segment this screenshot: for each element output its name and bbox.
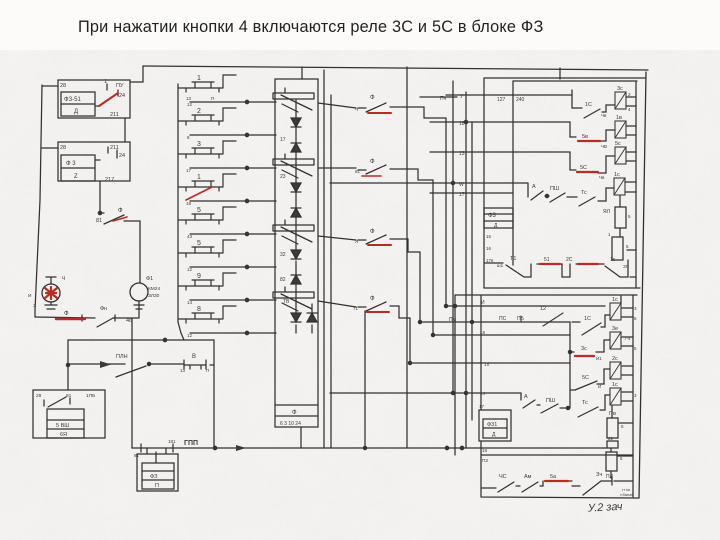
routing vertical F	[465, 92, 467, 448]
red bar 51	[540, 263, 560, 265]
svg-text:1: 1	[104, 79, 107, 85]
diode D4	[291, 208, 301, 217]
wire row7	[190, 299, 276, 301]
svg-text:Ф: Ф	[64, 311, 69, 317]
selector contact row C	[273, 220, 314, 244]
svg-text:22: 22	[608, 436, 614, 441]
switch ПЛН	[116, 366, 146, 377]
wire: top bus drop to tall box	[301, 67, 303, 79]
svg-text:7-4: 7-4	[624, 336, 631, 341]
svg-text:ФЗ-51: ФЗ-51	[64, 97, 82, 103]
wire 18 y335	[433, 334, 570, 336]
svg-text:18: 18	[482, 448, 488, 453]
selector contact row A	[273, 88, 314, 112]
red blade on contact 4	[186, 187, 212, 200]
svg-text:Чв: Чв	[601, 113, 607, 118]
contact inside box2	[95, 147, 117, 160]
red bar switch Ф3m	[368, 244, 391, 246]
svg-text:15: 15	[486, 234, 492, 239]
contact 7	[178, 273, 236, 290]
svg-text:5а: 5а	[550, 474, 557, 480]
wire: box2 bottom lead	[99, 181, 101, 213]
svg-text:ЯЛ: ЯЛ	[603, 209, 610, 215]
svg-text:2с: 2с	[612, 356, 618, 362]
wire: bottom long bus y448	[173, 447, 604, 449]
contact 8	[178, 306, 236, 323]
contact 4	[178, 174, 236, 191]
svg-text:17: 17	[459, 192, 465, 198]
wire: top bus line	[143, 66, 648, 70]
red bar 5С upper	[577, 171, 598, 173]
svg-text:Фн: Фн	[100, 306, 107, 312]
wire ПС/ПБ y322	[420, 321, 560, 323]
svg-text:81: 81	[134, 453, 140, 458]
svg-text:ПУ: ПУ	[116, 83, 124, 89]
svg-text:16: 16	[486, 246, 492, 251]
svg-text:ЗГ: ЗГ	[623, 264, 629, 269]
outer right border	[639, 72, 646, 498]
diode D6	[291, 275, 301, 284]
svg-text:17: 17	[479, 404, 485, 409]
contact 5	[178, 207, 236, 224]
contact В	[184, 360, 206, 369]
svg-text:Пв: Пв	[609, 411, 616, 417]
wire row3	[190, 167, 276, 169]
vertical x570	[569, 322, 571, 408]
svg-text:Z: Z	[74, 174, 78, 180]
wire: left bus vertical	[35, 85, 42, 317]
svg-text:28: 28	[60, 145, 66, 151]
contact inside box1	[95, 84, 118, 106]
wire: down lead to 5ВШ box	[67, 340, 69, 390]
svg-text:28: 28	[36, 393, 42, 399]
wire ПУ stub	[420, 96, 457, 98]
diode D7	[291, 313, 301, 322]
svg-text:Ам: Ам	[524, 474, 532, 480]
svg-text:И1: И1	[596, 356, 602, 361]
svg-text:12: 12	[187, 102, 193, 107]
switch 3с with red mark	[570, 340, 610, 352]
selector contact row D	[273, 287, 314, 311]
switch Фн	[97, 315, 115, 327]
relay coil 1в	[615, 121, 626, 138]
contact 6	[178, 240, 236, 257]
svg-text:1Х: 1Х	[484, 362, 490, 367]
svg-text:211: 211	[110, 145, 119, 151]
svg-text:3: 3	[197, 141, 201, 148]
wire 1Х y363	[410, 362, 570, 364]
wire 14 y393	[330, 392, 521, 394]
switch 5а red row	[543, 481, 572, 486]
svg-text:3с: 3с	[581, 346, 587, 352]
relay coil 3е	[610, 332, 621, 349]
switch 5С lower	[575, 369, 610, 390]
svg-text:Пч: Пч	[440, 96, 447, 102]
svg-text:1с: 1с	[612, 297, 618, 303]
wire: ПЛН horizontal bus y365	[68, 364, 214, 365]
svg-text:13: 13	[180, 368, 186, 373]
arrows on bus y365	[100, 361, 111, 368]
switch Ф3m	[318, 235, 420, 252]
svg-text:И: И	[598, 384, 601, 389]
svg-text:Ф: Ф	[118, 208, 123, 214]
relay coil 3с	[615, 92, 626, 109]
red bar switch Ф1	[368, 112, 391, 114]
resistor ЯЛ	[615, 207, 626, 228]
svg-text:18: 18	[459, 121, 465, 127]
svg-text:17: 17	[186, 168, 192, 173]
wire row6	[190, 266, 276, 268]
title	[78, 18, 543, 37]
svg-text:ГПП: ГПП	[184, 440, 198, 447]
svg-text:5в: 5в	[582, 134, 588, 140]
svg-text:W: W	[459, 182, 464, 188]
wire: box2 left lead	[42, 147, 58, 149]
wire: upper return bus y340	[68, 339, 214, 341]
switch Ф4	[318, 301, 410, 318]
svg-text:17в: 17в	[486, 258, 494, 263]
svg-text:Ф: Ф	[370, 95, 375, 101]
relay coil 5с	[615, 147, 626, 164]
svg-text:А: А	[532, 184, 536, 190]
switch ЧС	[481, 482, 520, 492]
svg-text:32: 32	[280, 252, 286, 258]
bottom contact row of upper block	[484, 260, 636, 277]
wire: top bus drop to box1	[130, 66, 143, 82]
wire row2	[190, 134, 276, 136]
routing vertical A	[445, 118, 447, 306]
svg-text:6 3 10 24: 6 3 10 24	[280, 421, 301, 427]
diode D2	[291, 143, 301, 152]
svg-text:Ф: Ф	[370, 159, 375, 165]
contact ГПП	[132, 444, 173, 453]
svg-text:Ф: Ф	[370, 229, 375, 235]
svg-text:П: П	[155, 483, 159, 489]
svg-text:Чв: Чв	[599, 175, 605, 180]
svg-text:2С: 2С	[566, 257, 573, 263]
tiny labels	[28, 75, 637, 497]
svg-text:Тс: Тс	[581, 190, 587, 196]
switch Ам	[522, 482, 543, 492]
svg-text:Зч: Зч	[596, 472, 602, 478]
svg-text:5: 5	[197, 207, 201, 214]
svg-text:14: 14	[480, 391, 486, 396]
relay coil 2с	[610, 362, 621, 379]
svg-text:1С: 1С	[584, 316, 591, 322]
wire: contact bus drop to y340	[178, 322, 184, 340]
contact column left bus	[177, 84, 179, 322]
svg-text:Я: Я	[355, 239, 358, 244]
svg-text:Т1: Т1	[510, 256, 516, 262]
relay block ФЗ-51 (box1)	[58, 80, 130, 118]
wire: top bus drop to upper block	[559, 68, 561, 79]
long verticals right of diode box	[324, 70, 331, 448]
svg-text:1с: 1с	[612, 382, 618, 388]
svg-text:28: 28	[60, 83, 66, 89]
svg-text:ЧВ: ЧВ	[601, 144, 607, 149]
svg-text:5: 5	[197, 240, 201, 247]
contact 3	[178, 141, 236, 158]
red marks	[45, 93, 600, 481]
svg-text:т.балаб: т.балаб	[620, 492, 634, 497]
wire: lamp2 bottom to ГПП bus	[131, 318, 133, 448]
wire: box bottom to bus	[300, 427, 302, 448]
wire: second top line	[513, 80, 637, 82]
diode D3	[291, 183, 301, 192]
switch ПШ lower	[541, 404, 568, 413]
switch Ф2	[318, 165, 433, 180]
svg-text:5С: 5С	[580, 165, 587, 171]
relay block Ф31	[479, 410, 511, 441]
red bar 5а	[545, 480, 568, 482]
svg-text:5с: 5с	[615, 141, 621, 147]
svg-text:ТВ: ТВ	[283, 299, 290, 305]
svg-text:6Я: 6Я	[60, 432, 67, 438]
svg-text:13: 13	[186, 96, 192, 101]
wire to right border	[614, 480, 633, 482]
svg-text:5 ВШ: 5 ВШ	[56, 423, 69, 429]
red bar switch Ф2	[362, 175, 381, 177]
svg-text:ш1: ш1	[497, 263, 504, 268]
routing vertical G	[471, 122, 473, 420]
svg-text:Ч: Ч	[62, 276, 65, 282]
svg-text:23: 23	[280, 174, 286, 180]
svg-text:2: 2	[197, 108, 201, 115]
upper block wires into ladder	[330, 95, 513, 193]
svg-text:1: 1	[197, 75, 201, 82]
svg-text:240: 240	[516, 97, 525, 103]
relay coil ПЛ	[606, 452, 617, 471]
svg-text:И: И	[481, 300, 485, 306]
svg-text:71: 71	[353, 306, 359, 311]
red bar under lamp	[56, 318, 85, 320]
svg-text:ЗЛ30: ЗЛ30	[148, 293, 160, 299]
svg-text:ПЛ: ПЛ	[606, 474, 613, 480]
svg-text:13: 13	[459, 151, 465, 157]
switch А lower	[521, 393, 540, 408]
diode D5	[291, 250, 301, 259]
lamp КМ24 ЗЛ30	[130, 283, 148, 301]
svg-text:211: 211	[110, 112, 119, 118]
svg-text:181: 181	[168, 439, 176, 444]
switch 12 lower block	[100, 313, 563, 451]
svg-text:46: 46	[126, 318, 132, 324]
wire: Ф4 drop to bus	[364, 311, 366, 448]
svg-text:81: 81	[355, 169, 361, 174]
svg-text:ПЗ: ПЗ	[482, 458, 488, 463]
svg-text:8: 8	[197, 306, 201, 313]
switch 1С lower	[560, 315, 610, 335]
wire row4	[190, 200, 276, 202]
wire row8	[190, 332, 276, 334]
selector contact row B	[273, 154, 314, 178]
wire row5	[190, 233, 276, 235]
wire: box1 left lead	[42, 85, 58, 87]
relay block Ф3 (box2)	[58, 142, 130, 181]
svg-text:И: И	[28, 293, 32, 299]
routing vertical C	[419, 252, 421, 322]
routing vertical D	[409, 318, 411, 363]
svg-text:Ф: Ф	[370, 296, 375, 302]
wire: box1 to top	[124, 118, 126, 142]
svg-text:12: 12	[187, 267, 193, 272]
svg-text:ПЛН: ПЛН	[116, 354, 128, 360]
relay coil 1с (upper)	[614, 178, 625, 195]
svg-text:24: 24	[119, 153, 125, 159]
svg-text:1в: 1в	[616, 115, 622, 121]
relay coil Пв	[607, 418, 618, 438]
diode chain vertical	[296, 100, 312, 333]
svg-text:12: 12	[187, 333, 193, 338]
svg-text:1С: 1С	[585, 102, 592, 108]
red tick at switch 81	[113, 217, 127, 221]
wire row1	[190, 101, 276, 103]
contact 2	[178, 108, 236, 125]
capacitor block	[607, 441, 618, 448]
contact 1	[178, 75, 236, 92]
upper-right block frame	[484, 78, 646, 288]
svg-text:17: 17	[280, 137, 286, 143]
svg-text:ФЗ: ФЗ	[150, 474, 158, 480]
svg-text:3с: 3с	[617, 86, 623, 92]
svg-text:12: 12	[540, 306, 546, 312]
svg-text:5С: 5С	[582, 375, 589, 381]
relay coil 1с (lower B)	[610, 388, 621, 405]
diode D8	[307, 313, 317, 322]
svg-text:У.2 зач: У.2 зач	[587, 501, 623, 515]
switch Тс lower	[578, 395, 610, 417]
lamp row wire	[35, 315, 139, 321]
svg-text:КМ24: КМ24	[148, 286, 160, 292]
switch 81	[100, 213, 140, 224]
svg-text:Тс: Тс	[582, 400, 588, 406]
relay block Ф3 (upper block)	[484, 208, 513, 228]
svg-text:Ф3: Ф3	[488, 213, 497, 219]
svg-text:1с: 1с	[610, 257, 616, 263]
red switch blade in box1	[99, 93, 118, 106]
bottom strip frame	[481, 441, 639, 498]
svg-text:ПШ: ПШ	[546, 398, 555, 404]
svg-text:81: 81	[66, 393, 72, 399]
svg-text:127: 127	[497, 97, 506, 103]
svg-text:Д: Д	[74, 109, 78, 115]
svg-text:9: 9	[197, 273, 201, 280]
wire: lamp2 top lead	[139, 221, 141, 283]
svg-text:В: В	[192, 354, 196, 360]
red bar 3с lower	[575, 355, 594, 357]
arrow on bus y448	[236, 445, 246, 451]
svg-text:1: 1	[197, 174, 201, 181]
svg-text:14: 14	[187, 300, 193, 305]
red bar switch Ф4	[366, 311, 389, 313]
svg-text:П: П	[206, 368, 209, 373]
relay block ФЗ/П under ГПП	[155, 452, 157, 463]
relay coil 3Г	[612, 237, 623, 260]
svg-text:217: 217	[105, 177, 114, 183]
routing vertical B	[432, 180, 434, 335]
relay coil 1с (lower A)	[610, 303, 621, 320]
svg-text:18: 18	[186, 201, 192, 206]
switch Зч	[572, 477, 612, 495]
svg-text:Ф 3: Ф 3	[66, 161, 76, 167]
svg-text:1с: 1с	[614, 172, 620, 178]
svg-text:82: 82	[280, 277, 286, 283]
relay block 5ВШ/6Я	[33, 390, 105, 438]
lower-right block frame	[455, 295, 637, 497]
lamp ВРЦ-25 bottom lead	[45, 302, 57, 309]
red bar 5в	[578, 140, 600, 142]
diode matrix box	[275, 79, 318, 427]
svg-text:Ф31: Ф31	[487, 422, 497, 428]
svg-text:3е: 3е	[612, 326, 618, 332]
wire: В bus drop x214	[213, 340, 215, 448]
svg-text:ЧС: ЧС	[499, 474, 507, 480]
routing vertical H	[406, 67, 408, 448]
svg-text:81: 81	[96, 218, 102, 224]
svg-text:ПС: ПС	[499, 316, 507, 322]
svg-text:Ч: Ч	[355, 107, 358, 112]
svg-text:43: 43	[187, 234, 193, 239]
svg-text:ПШ: ПШ	[550, 186, 559, 192]
contact inside 5ВШ box	[44, 397, 70, 407]
svg-text:51: 51	[544, 257, 550, 263]
svg-text:Пм: Пм	[449, 317, 457, 323]
diode D1	[291, 118, 301, 127]
svg-text:24: 24	[119, 93, 125, 99]
svg-text:З: З	[33, 303, 36, 309]
lamp ВРЦ-25	[42, 284, 60, 302]
svg-text:1ПБ: 1ПБ	[86, 393, 95, 399]
svg-text:П: П	[211, 96, 214, 101]
svg-text:А: А	[524, 394, 528, 400]
svg-text:Ф: Ф	[292, 410, 297, 416]
wire И y306	[446, 305, 605, 307]
red bar 2С	[578, 263, 598, 265]
red lamp fill	[45, 287, 57, 299]
switch Ф1 (mid row)	[318, 103, 446, 118]
svg-text:18: 18	[480, 330, 486, 335]
svg-text:Ф1: Ф1	[146, 276, 153, 282]
routing vertical E	[452, 81, 454, 393]
